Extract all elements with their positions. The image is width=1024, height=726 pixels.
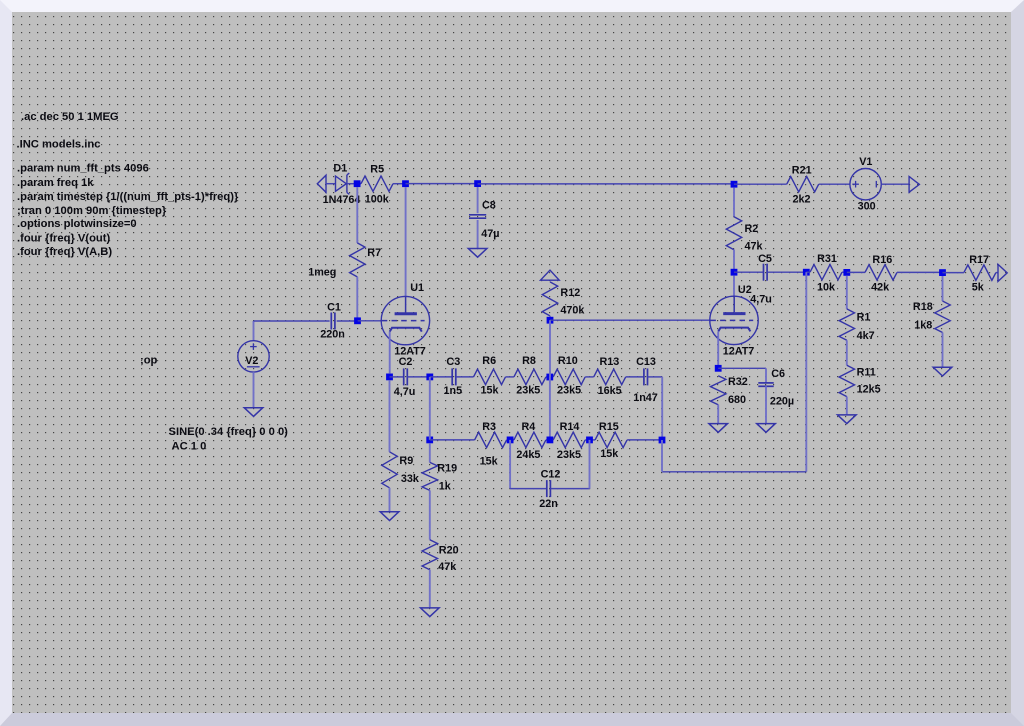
wire out node to R31 bbox=[806, 271, 810, 273]
svg-text:R15: R15 bbox=[599, 421, 619, 433]
svg-text:15k: 15k bbox=[481, 385, 500, 397]
wire C1 row to V2 bbox=[253, 321, 255, 341]
svg-text:C5: C5 bbox=[758, 253, 772, 265]
svg-text:C1: C1 bbox=[327, 301, 341, 313]
svg-text:.ac dec 50 1 1MEG: .ac dec 50 1 1MEG bbox=[21, 111, 119, 123]
svg-text:R11: R11 bbox=[857, 367, 876, 379]
wire R10 to R13 bbox=[585, 376, 594, 378]
ground below R20 bbox=[421, 608, 440, 617]
wire R13 to C13 bbox=[626, 376, 644, 378]
svg-text:47µ: 47µ bbox=[481, 228, 499, 240]
node U1 cathode junction bbox=[386, 374, 393, 381]
ground below C8 bbox=[468, 249, 487, 258]
wire down to C8 bbox=[477, 187, 479, 213]
svg-text:R7: R7 bbox=[367, 247, 381, 259]
node R1 top junction bbox=[843, 269, 850, 276]
resistor R14 bbox=[553, 432, 585, 447]
resistor R16 bbox=[865, 265, 897, 280]
resistor R32 bbox=[711, 376, 726, 405]
svg-text:R13: R13 bbox=[600, 356, 620, 368]
resistor R1 bbox=[839, 309, 854, 340]
wire C12 left drop bbox=[509, 440, 511, 489]
resistor R5 bbox=[361, 176, 393, 191]
wire R21 to V1 bbox=[819, 183, 850, 185]
svg-text:.options plotwinsize=0: .options plotwinsize=0 bbox=[17, 218, 137, 230]
svg-text:R9: R9 bbox=[399, 455, 413, 467]
svg-text:R4: R4 bbox=[522, 421, 536, 433]
wire cathode node to C6 bbox=[718, 367, 766, 369]
wire V1 to port bbox=[881, 183, 909, 185]
wire R4 to R14 bbox=[546, 439, 553, 441]
resistor R6 bbox=[474, 369, 506, 384]
svg-text:100k: 100k bbox=[365, 194, 390, 206]
svg-text:12AT7: 12AT7 bbox=[723, 346, 755, 358]
node U1 grid junction bbox=[354, 317, 361, 324]
svg-text:R17: R17 bbox=[969, 254, 989, 266]
capacitor C1 bbox=[331, 313, 335, 330]
svg-text:.INC models.inc: .INC models.inc bbox=[17, 139, 101, 151]
svg-text:C2: C2 bbox=[399, 356, 413, 368]
svg-text:15k: 15k bbox=[600, 448, 619, 460]
svg-text:R31: R31 bbox=[817, 253, 837, 265]
node U2 grid junction bbox=[547, 317, 554, 324]
svg-text:24k5: 24k5 bbox=[516, 449, 540, 461]
node U2 plate junction bbox=[731, 269, 738, 276]
svg-text:10k: 10k bbox=[817, 282, 836, 294]
V1 plus/minus marks bbox=[852, 181, 876, 188]
wire row2 node to R3 bbox=[430, 439, 475, 441]
wire node A down to row2 bbox=[549, 377, 551, 440]
ground below R32 bbox=[709, 424, 728, 433]
svg-text:R14: R14 bbox=[560, 421, 580, 433]
wire R31 to R1 node bbox=[842, 271, 847, 273]
svg-text:23k5: 23k5 bbox=[557, 385, 581, 397]
svg-text:R2: R2 bbox=[745, 223, 759, 235]
svg-text:1k: 1k bbox=[439, 481, 452, 493]
svg-text:R16: R16 bbox=[872, 254, 892, 266]
ground below C6 bbox=[757, 424, 776, 433]
svg-text:470k: 470k bbox=[560, 305, 585, 317]
svg-text:12k5: 12k5 bbox=[857, 384, 881, 396]
svg-text:4k7: 4k7 bbox=[857, 330, 875, 342]
wire row2 node down to R19 bbox=[429, 443, 431, 462]
wire grid node to U1 grid bbox=[358, 320, 382, 322]
wire R18 node down to R18 bbox=[942, 276, 944, 301]
svg-text:C8: C8 bbox=[482, 200, 496, 212]
svg-text:1n5: 1n5 bbox=[444, 385, 463, 397]
wire B+ down to R2 bbox=[733, 188, 735, 217]
svg-text:R32: R32 bbox=[728, 376, 748, 388]
wire cathode node to C2 bbox=[390, 376, 404, 378]
wire R8 to node A bbox=[546, 376, 553, 378]
capacitor C6 bbox=[758, 383, 773, 386]
wire R11 to ground bbox=[846, 397, 848, 415]
wire C12 right drop bbox=[589, 440, 591, 489]
wire R12 to U2 grid rail bbox=[549, 316, 551, 320]
wire feedback bottom bbox=[662, 471, 806, 473]
wire R2 to U2 plate node bbox=[733, 250, 735, 273]
resistor R13 bbox=[594, 369, 626, 384]
wire cathode node down to R9 bbox=[389, 380, 391, 452]
resistor R19 bbox=[422, 462, 437, 490]
svg-text:4,7u: 4,7u bbox=[394, 386, 416, 398]
resistor R18 bbox=[935, 301, 950, 333]
capacitor C2 bbox=[404, 368, 408, 385]
wire R15 to feedback node bbox=[627, 439, 662, 441]
wire down to C6 bbox=[765, 368, 767, 383]
svg-text:5k: 5k bbox=[972, 282, 985, 294]
node R18 top junction bbox=[939, 269, 946, 276]
capacitor C8 bbox=[469, 215, 486, 218]
svg-text:R8: R8 bbox=[522, 355, 536, 367]
diode D1 (zener 1N4764) bbox=[336, 173, 350, 194]
svg-text:1n47: 1n47 bbox=[633, 392, 658, 404]
node C8 junction bbox=[474, 180, 481, 187]
svg-text:1k8: 1k8 bbox=[914, 320, 932, 332]
wire to C12 bbox=[510, 488, 547, 490]
svg-text:15k: 15k bbox=[480, 456, 499, 468]
V2 plus/minus marks bbox=[247, 343, 260, 367]
svg-text:2k2: 2k2 bbox=[793, 194, 811, 206]
node C12 right junction bbox=[586, 437, 593, 444]
svg-text:;op: ;op bbox=[140, 355, 158, 367]
svg-text:V1: V1 bbox=[859, 156, 872, 168]
svg-text:C6: C6 bbox=[771, 368, 785, 380]
wire B+ node to R21 bbox=[734, 183, 787, 185]
port flag above R12 bbox=[541, 270, 560, 280]
resistor R8 bbox=[514, 369, 546, 384]
port flag right of R17 bbox=[998, 264, 1007, 281]
svg-text:C13: C13 bbox=[636, 356, 656, 368]
wire V2 to ground bbox=[253, 372, 255, 408]
triode U2 12AT7 bbox=[710, 296, 758, 344]
wire R3 to R4 bbox=[507, 439, 514, 441]
svg-text:.param timestep {1/((num_fft_p: .param timestep {1/((num_fft_pts-1)*freq… bbox=[17, 191, 239, 203]
node feedback junction bbox=[659, 437, 666, 444]
ground below R9 bbox=[380, 512, 399, 521]
resistor R7 bbox=[350, 243, 365, 277]
triode U1 12AT7 bbox=[381, 296, 429, 344]
port flag left of D1 bbox=[317, 175, 326, 192]
wire plate node down to U2 bbox=[733, 276, 735, 296]
svg-text:22n: 22n bbox=[539, 498, 558, 510]
voltage source V1 bbox=[850, 169, 881, 200]
node row2 mid junction bbox=[547, 437, 554, 444]
svg-text:33k: 33k bbox=[401, 473, 420, 485]
svg-text:220µ: 220µ bbox=[770, 396, 794, 408]
svg-text:R21: R21 bbox=[792, 164, 812, 176]
svg-text:U2: U2 bbox=[738, 284, 752, 296]
resistor R9 bbox=[382, 452, 397, 488]
svg-text:47k: 47k bbox=[438, 561, 457, 573]
wire R16 to R18 node bbox=[897, 271, 943, 273]
capacitor C12 bbox=[547, 480, 551, 497]
svg-text:V2: V2 bbox=[245, 355, 258, 367]
svg-text:42k: 42k bbox=[871, 282, 890, 294]
ground below R18 bbox=[933, 367, 952, 376]
ground below V2 bbox=[244, 408, 263, 417]
ground below R11 bbox=[838, 415, 857, 424]
resistor R11 bbox=[839, 365, 854, 396]
wire plate node to C5 bbox=[734, 271, 764, 273]
svg-text:.param num_fft_pts 4096: .param num_fft_pts 4096 bbox=[17, 163, 149, 175]
resistor R4 bbox=[514, 432, 546, 447]
svg-text:;tran 0 100m 90m {timestep}: ;tran 0 100m 90m {timestep} bbox=[17, 205, 167, 217]
wire R9 to ground bbox=[389, 488, 391, 512]
resistor R15 bbox=[595, 432, 627, 447]
voltage source V2 bbox=[238, 341, 269, 372]
wire C6 to ground bbox=[765, 386, 767, 423]
wire C8 to ground bbox=[477, 220, 479, 249]
svg-text:23k5: 23k5 bbox=[516, 385, 540, 397]
svg-text:.four {freq} V(out): .four {freq} V(out) bbox=[17, 233, 110, 245]
resistor R21 bbox=[787, 177, 819, 192]
svg-text:C3: C3 bbox=[446, 356, 460, 368]
svg-text:R3: R3 bbox=[482, 421, 496, 433]
wire feedback up to node bbox=[661, 440, 663, 472]
node divider junction bbox=[426, 374, 433, 381]
wire plate node down to U1 bbox=[405, 187, 407, 296]
resistor R12 bbox=[542, 282, 557, 316]
svg-text:R5: R5 bbox=[370, 164, 384, 176]
svg-text:680: 680 bbox=[728, 394, 746, 406]
node N001 junction bbox=[354, 180, 361, 187]
wire C12 to right drop bbox=[550, 488, 589, 490]
svg-text:220n: 220n bbox=[320, 329, 345, 341]
wire R1 to R11 bbox=[846, 340, 848, 365]
node row2 left junction bbox=[426, 437, 433, 444]
wire grid rail to U2 grid bbox=[550, 319, 710, 321]
wire R19 to R20 bbox=[429, 490, 431, 539]
resistor R3 bbox=[475, 432, 507, 447]
svg-text:D1: D1 bbox=[333, 162, 347, 174]
node A junction bbox=[546, 374, 553, 381]
wire C13 to right corner bbox=[648, 376, 663, 378]
wire divider node down to row2 bbox=[429, 377, 431, 440]
capacitor C3 bbox=[452, 368, 456, 385]
svg-text:1meg: 1meg bbox=[308, 267, 336, 279]
svg-text:R12: R12 bbox=[560, 287, 580, 299]
svg-text:R1: R1 bbox=[857, 312, 871, 324]
port flag right of V1 bbox=[909, 177, 919, 193]
svg-text:R20: R20 bbox=[439, 544, 459, 556]
wire port to D1 anode bbox=[326, 183, 336, 185]
wire C3 to R6 bbox=[456, 376, 474, 378]
wire C1 to grid node bbox=[337, 320, 358, 322]
wire D1 cathode to node N001 bbox=[347, 183, 361, 185]
resistor R2 bbox=[726, 217, 741, 250]
wire U1 cathode down to C2 node bbox=[389, 332, 391, 374]
wire R14 to R15 bbox=[585, 439, 595, 441]
wire R6 to R8 bbox=[506, 376, 514, 378]
svg-text:R10: R10 bbox=[558, 355, 578, 367]
wire R32 to ground bbox=[717, 405, 719, 424]
svg-text:300: 300 bbox=[858, 201, 876, 213]
wire V2 to C1 bbox=[254, 320, 330, 322]
wire R20 to ground bbox=[429, 570, 431, 608]
wire R17 to port bbox=[996, 272, 998, 274]
wire C2 to divider node bbox=[407, 376, 430, 378]
svg-text:R19: R19 bbox=[437, 463, 457, 475]
node out junction bbox=[803, 269, 810, 276]
wire C8 node to B+ node bbox=[478, 183, 734, 185]
svg-text:C12: C12 bbox=[541, 469, 561, 481]
wire R7 to grid node bbox=[356, 277, 358, 321]
wire node to R16 bbox=[847, 271, 865, 273]
node U2 cathode junction bbox=[715, 365, 722, 372]
svg-text:.four {freq} V(A,B): .four {freq} V(A,B) bbox=[17, 246, 112, 258]
svg-text:23k5: 23k5 bbox=[557, 449, 581, 461]
svg-text:AC 1 0: AC 1 0 bbox=[172, 441, 207, 453]
svg-text:U1: U1 bbox=[410, 282, 424, 294]
wire R1 node down to R1 bbox=[846, 276, 848, 309]
resistor R17 bbox=[964, 265, 996, 280]
resistor R31 bbox=[810, 265, 842, 280]
svg-text:R18: R18 bbox=[913, 301, 933, 313]
capacitor C13 bbox=[644, 368, 648, 385]
wire C5 to out node bbox=[767, 271, 806, 273]
wire R5 to U1 plate node bbox=[393, 183, 406, 185]
svg-text:SINE(0 .34 {freq} 0 0 0): SINE(0 .34 {freq} 0 0 0) bbox=[169, 426, 289, 438]
capacitor C5 bbox=[764, 264, 768, 281]
resistor R20 bbox=[422, 540, 437, 570]
svg-text:4,7u: 4,7u bbox=[750, 293, 772, 305]
node C12 left junction bbox=[507, 437, 514, 444]
resistor R10 bbox=[553, 369, 585, 384]
wire R18 to ground bbox=[942, 333, 944, 368]
svg-text:R6: R6 bbox=[482, 355, 496, 367]
wire U2 cathode down bbox=[717, 331, 719, 368]
svg-text:16k5: 16k5 bbox=[598, 385, 622, 397]
node B+ junction bbox=[731, 181, 738, 188]
wire plate node to C8 node bbox=[406, 183, 478, 185]
svg-text:1N4764: 1N4764 bbox=[323, 194, 361, 206]
svg-text:.param freq 1k: .param freq 1k bbox=[17, 177, 94, 189]
wire node to C3 bbox=[430, 376, 452, 378]
wire N001 down to R7 bbox=[356, 187, 358, 243]
wire node to R17 bbox=[943, 272, 964, 274]
svg-text:47k: 47k bbox=[745, 241, 764, 253]
wire out node down (feedback) bbox=[805, 272, 807, 472]
wire down C13 to row2 node bbox=[661, 377, 663, 440]
wire grid node down to node A bbox=[549, 320, 551, 377]
node U1 plate junction bbox=[402, 180, 409, 187]
